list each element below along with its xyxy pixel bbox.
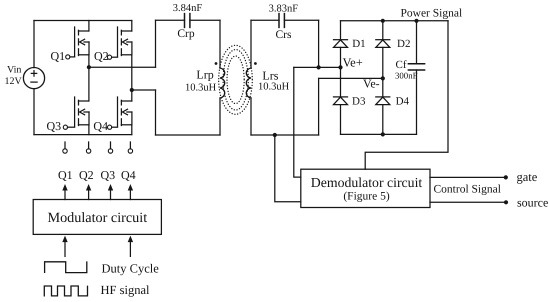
transistor Q2	[94, 27, 132, 63]
diode D1	[334, 38, 366, 50]
wire: node B to tank	[132, 89, 156, 91]
svg-text:10.3uH: 10.3uH	[185, 83, 217, 94]
svg-text:Q3: Q3	[101, 168, 116, 182]
diode D4	[376, 95, 410, 107]
junction dot Cf top	[414, 19, 418, 23]
wire: Lrs top lead	[250, 20, 252, 68]
node Ve+ junction dot at bridge	[338, 65, 342, 69]
wire: Cf bottom lead	[416, 70, 418, 134]
svg-text:12V: 12V	[5, 76, 23, 87]
svg-text:source: source	[517, 195, 548, 209]
wire: secondary bottom rail	[251, 134, 319, 136]
inductor L2 Lrs 10.3uH	[246, 68, 289, 98]
transformer coupling dashed ellipse middle	[223, 50, 248, 110]
svg-text:10.3uH: 10.3uH	[258, 82, 290, 93]
svg-text:3.83nF: 3.83nF	[269, 4, 299, 15]
arrow modulator to Q2	[86, 184, 91, 200]
diode D3	[334, 95, 366, 107]
transistor Q3	[47, 97, 90, 133]
junction dot D2 top	[381, 19, 385, 23]
svg-text:Demodulator circuit: Demodulator circuit	[311, 175, 423, 190]
wire: Lrs bottom lead	[250, 98, 252, 135]
svg-text:Q2: Q2	[94, 49, 109, 63]
arrow modulator to Q3	[108, 184, 113, 200]
svg-text:Lrp: Lrp	[196, 68, 213, 82]
wire: source output line	[430, 201, 506, 203]
voltage source Vin 12V	[5, 65, 45, 89]
wire: H-bridge left rail upper	[33, 21, 35, 68]
wire: Crs down to node Ve+	[318, 20, 320, 67]
wire: Q1 drain to top rail	[88, 21, 90, 32]
node Ve+ junction dot at Crs	[317, 65, 321, 69]
modulator circuit U2 box	[33, 200, 161, 235]
demodulator circuit U1 box	[301, 169, 430, 207]
arrow modulator to Q4	[128, 184, 133, 200]
svg-text:gate: gate	[517, 170, 538, 184]
svg-text:Power Signal: Power Signal	[401, 7, 463, 19]
transformer coupling dashed ellipse outer	[219, 45, 253, 114]
capacitor C3 Cf 300nF	[395, 59, 425, 81]
transformer coupling dashed ellipse inner	[227, 56, 244, 104]
svg-text:D2: D2	[397, 38, 410, 50]
HF signal waveform glyph	[44, 286, 87, 296]
wire: Crs left lead	[251, 19, 279, 21]
capacitor C1 Crp 3.84nF	[173, 3, 203, 40]
node A: left leg midpoint	[87, 65, 91, 69]
junction dot D4 bottom	[381, 132, 385, 136]
wire: secondary return down to demodulator	[275, 135, 301, 202]
wire: D1 anode to Ve+ to D3 cathode	[340, 47, 342, 97]
node gate dot	[504, 175, 508, 179]
svg-text:HF signal: HF signal	[101, 283, 150, 297]
arrow HF signal into modulator	[128, 236, 133, 257]
node source dot	[504, 200, 508, 204]
wire: primary bottom rail	[156, 134, 221, 136]
capacitor C2 Crs 3.83nF	[269, 4, 299, 41]
svg-text:Duty Cycle: Duty Cycle	[102, 261, 160, 275]
svg-text:D1: D1	[352, 38, 365, 50]
arrow duty cycle into modulator	[62, 236, 67, 257]
svg-text:Crs: Crs	[276, 29, 293, 41]
svg-text:D4: D4	[396, 95, 410, 107]
svg-text:Ve+: Ve+	[343, 56, 363, 70]
svg-text:Vin: Vin	[7, 65, 21, 76]
svg-text:Q2: Q2	[79, 168, 94, 182]
wire: bridge top rail	[341, 20, 449, 22]
wire: tank left vertical lower	[155, 90, 157, 135]
wire: H-bridge left rail lower	[33, 89, 35, 135]
wire: Crp left lead	[156, 19, 185, 21]
svg-text:(Figure 5): (Figure 5)	[343, 190, 389, 202]
transistor Q1	[51, 27, 90, 63]
svg-text:D3: D3	[352, 95, 366, 107]
inductor L1 Lrp 10.3uH	[185, 68, 225, 98]
duty cycle waveform glyph	[45, 262, 87, 273]
wire: H-bridge top rail	[34, 20, 132, 22]
terminal circle Q1	[63, 142, 67, 153]
wire: Q2 source down to node B	[131, 55, 133, 101]
wire: Q3 source to bottom rail	[88, 125, 90, 135]
svg-text:Control Signal: Control Signal	[434, 184, 501, 196]
Lrp phase dot	[215, 62, 218, 65]
node B: right leg midpoint	[130, 88, 134, 92]
wire: Crp right lead	[190, 19, 220, 21]
wire: D3 anode to bridge bottom rail	[340, 105, 342, 135]
node Ve+ wire	[294, 66, 341, 68]
wire: power rail down right side	[365, 21, 448, 169]
wire: D2 anode to Ve- to D4 cathode	[382, 47, 384, 97]
node Ve- junction dot at bridge	[381, 76, 385, 80]
arrow modulator to Q1	[62, 184, 67, 200]
wire: gate output line	[430, 176, 506, 178]
svg-text:Modulator circuit: Modulator circuit	[47, 210, 147, 226]
transistor Q4	[93, 97, 131, 133]
wire: Ve+ down to demodulator	[294, 67, 301, 177]
svg-text:Q1: Q1	[58, 168, 73, 182]
svg-text:3.84nF: 3.84nF	[173, 3, 203, 14]
svg-text:Q4: Q4	[93, 119, 108, 133]
wire: Lrp top lead	[219, 20, 221, 68]
diode D2	[376, 38, 411, 50]
wire: Q4 source to bottom rail	[131, 125, 133, 135]
wire: tank left vertical up	[155, 20, 157, 67]
svg-text:Lrs: Lrs	[262, 69, 278, 83]
svg-text:Ve-: Ve-	[363, 77, 380, 91]
terminal circle Q2	[86, 142, 90, 153]
wire: Lrp bottom lead	[219, 98, 221, 135]
wire: H-bridge bottom rail	[34, 134, 132, 136]
wire: node A to resonant tank	[89, 66, 156, 68]
wire: bridge bottom rail	[341, 133, 417, 135]
svg-text:Crp: Crp	[177, 28, 195, 40]
svg-text:Q3: Q3	[47, 119, 62, 133]
wire: Q1 source down to node A	[88, 55, 90, 101]
wire: Cf top lead	[416, 21, 418, 64]
wire: Q2 drain to top rail	[131, 21, 133, 32]
svg-text:300nF: 300nF	[395, 71, 418, 81]
node Ve- wire	[319, 77, 383, 79]
terminal circle Q3	[108, 142, 112, 153]
svg-text:Q1: Q1	[51, 49, 66, 63]
wire: secondary return up to node Ve-	[318, 78, 320, 135]
svg-text:Cf: Cf	[396, 59, 407, 71]
wire: D4 anode to bridge bottom rail	[382, 105, 384, 135]
wire: Crs right lead	[284, 19, 318, 21]
wire: D2 cathode lead	[382, 21, 384, 40]
junction dot on secondary bottom rail	[273, 133, 277, 137]
svg-text:Q4: Q4	[121, 168, 136, 182]
wire: D1 cathode lead	[340, 21, 342, 40]
Lrs phase dot	[254, 62, 257, 65]
terminal circle Q4	[128, 142, 132, 153]
